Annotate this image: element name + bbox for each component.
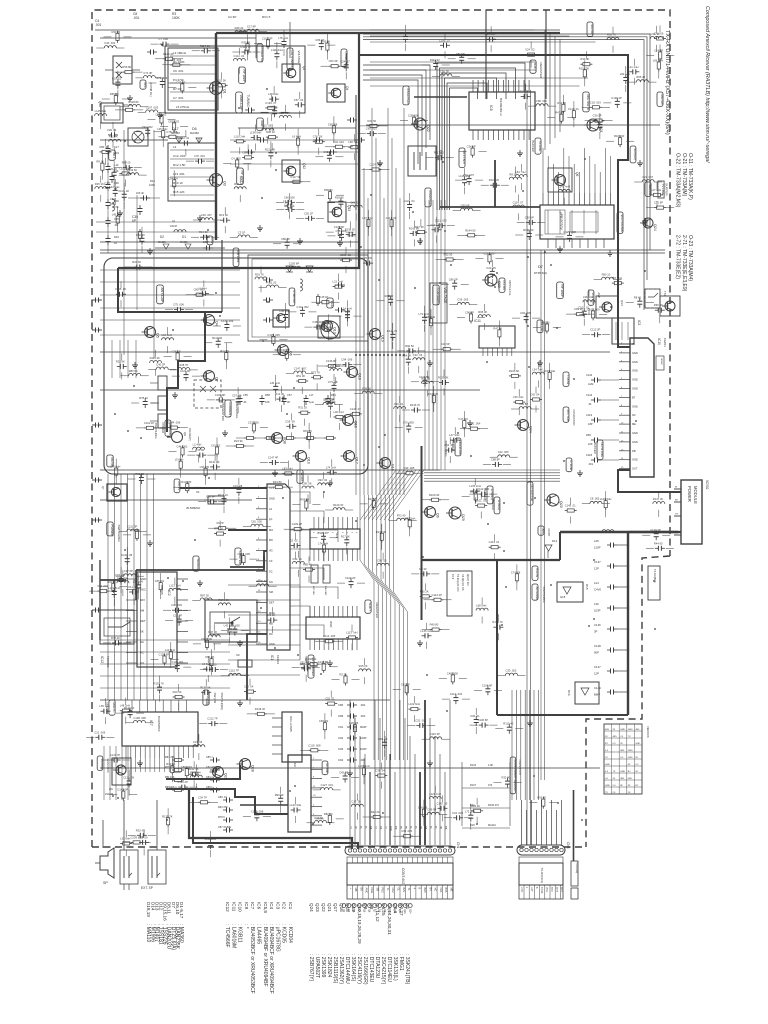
transistor Q19 (370, 329, 381, 340)
capacitor C94 with leads (342, 364, 346, 366)
capacitor C117 with leads (432, 229, 436, 231)
svg-text:R49 20: R49 20 (235, 26, 244, 30)
ground (609, 250, 611, 253)
rf amp label 3 (557, 282, 564, 299)
svg-text:L33 6nH: L33 6nH (120, 836, 130, 840)
ground (639, 160, 641, 163)
capacitor R52 with leads (141, 235, 143, 239)
capacitor C83 with leads (320, 40, 322, 44)
resistor L149 with leads (605, 498, 607, 501)
svg-text:C17: C17 (114, 145, 119, 149)
resistor R17 with leads (373, 498, 375, 501)
inductor L121 with leads (169, 588, 181, 590)
ground (339, 240, 341, 243)
IC9 regulator block (288, 755, 311, 832)
capacitor C17 with leads (139, 841, 143, 843)
capacitor R13 with leads (220, 219, 224, 221)
svg-text:R16 10: R16 10 (173, 181, 183, 185)
svg-text:R56 80: R56 80 (122, 65, 131, 69)
svg-text:R100 60: R100 60 (318, 531, 329, 535)
svg-text:C91: C91 (338, 725, 344, 729)
label RF AMP 1 (239, 67, 246, 84)
resistor R65 with leads (115, 93, 117, 96)
svg-text:R44 60: R44 60 (654, 541, 663, 545)
svg-text:R11 8K: R11 8K (220, 349, 229, 353)
resistor C117 with leads (290, 181, 293, 183)
resistor C45 with leads (319, 301, 322, 303)
svg-text:C139 6P: C139 6P (334, 225, 345, 229)
capacitor column (347, 704, 351, 706)
label IF MIX SW (289, 288, 295, 306)
svg-text:L68 5nH: L68 5nH (476, 604, 486, 608)
svg-text:R136 50: R136 50 (523, 228, 534, 232)
capacitor R90 with leads (140, 474, 142, 478)
capacitor C80 with leads (526, 221, 530, 223)
svg-text:R78 9: R78 9 (218, 816, 225, 819)
svg-text:C108 .008: C108 .008 (133, 716, 146, 720)
filter ladder 2 rungs (170, 149, 214, 151)
diode switch box D15 (557, 582, 583, 602)
connector CN3 socket (517, 845, 565, 855)
capacitor C57 with leads (237, 395, 239, 399)
transistor Q21 (587, 119, 599, 131)
wire (100, 37, 256, 39)
resistor C101 with leads (475, 505, 478, 507)
label Rd6 (233, 248, 239, 267)
svg-text:C109 2P: C109 2P (292, 522, 303, 526)
label D11 STANBY (287, 48, 293, 69)
svg-text:C11 .06: C11 .06 (128, 585, 138, 589)
connector CN1 callouts (342, 904, 346, 908)
svg-text:R122 20: R122 20 (489, 178, 500, 182)
wire trunk bottom (496, 560, 498, 715)
inductor C114 with leads (233, 58, 245, 60)
inductor C3 with leads (238, 235, 250, 237)
svg-text:R60 90: R60 90 (541, 321, 550, 325)
svg-text:GND: GND (269, 497, 275, 501)
pin drop lines PLL (542, 148, 544, 193)
svg-text:C78 .008: C78 .008 (166, 130, 177, 134)
capacitor C109 with leads (350, 578, 352, 582)
capacitor C117 with leads (123, 191, 125, 195)
inductor C37 with leads (193, 745, 205, 747)
capacitor C52 with leads (416, 724, 420, 726)
connector CN1 pin labels (347, 885, 453, 899)
svg-text:R47 3K: R47 3K (208, 630, 217, 634)
resistor C117 with leads (391, 217, 393, 220)
inductor C33 with leads (506, 673, 518, 675)
resistor L58 with leads (348, 146, 351, 148)
svg-text:EXT. SP: EXT. SP (141, 886, 153, 890)
transistor Q4 (204, 315, 215, 326)
svg-text:R106 6K: R106 6K (509, 369, 520, 373)
svg-text:SRFAT: SRFAT (660, 358, 663, 366)
svg-text:SWITCHING: SWITCHING (154, 423, 158, 439)
svg-text:C124: C124 (586, 373, 593, 377)
resistor C14 with leads (659, 49, 661, 52)
resistor C52 with leads (325, 703, 328, 705)
resistor L57 with leads (612, 282, 615, 284)
label MULTIPLEXER (109, 700, 115, 715)
svg-text:R107: R107 (470, 784, 477, 787)
svg-text:DTZ5.6(A): DTZ5.6(A) (534, 271, 547, 275)
svg-text:GND: GND (635, 743, 640, 745)
svg-text:Q20: Q20 (559, 501, 563, 508)
svg-text:R59 60: R59 60 (324, 188, 333, 192)
capacitor C20 with leads (491, 268, 493, 272)
capacitor C19 with leads (117, 79, 119, 83)
svg-text:CONT: CONT (547, 529, 551, 537)
label INVERTER 2 (425, 188, 431, 207)
connector CN3 pin labels (519, 885, 563, 899)
svg-text:L111 3nH: L111 3nH (117, 576, 128, 580)
inductor C127 with leads (321, 788, 333, 790)
svg-text:BY: BY (428, 888, 432, 892)
capacitor cluster A (245, 109, 249, 111)
ground (159, 112, 161, 115)
svg-text:Q28: Q28 (497, 281, 501, 288)
resistor L98 with leads (430, 316, 432, 319)
wire trunk IC1 MO (228, 529, 267, 531)
svg-text:D1: D1 (182, 235, 186, 239)
svg-text:DET: DET (140, 619, 146, 623)
svg-text:C129 3P: C129 3P (650, 528, 661, 532)
svg-text:R130 9K: R130 9K (200, 685, 211, 689)
svg-text:R19 7K: R19 7K (255, 272, 264, 276)
transistor G10 (380, 458, 391, 469)
inductor R95 with leads (421, 381, 433, 383)
svg-text:C139 .005: C139 .005 (131, 835, 144, 839)
wire trunk stair 1 (166, 765, 240, 779)
resistor R129 with leads (163, 58, 166, 60)
resistor L10 with leads (170, 649, 172, 652)
svg-text:Q4: Q4 (215, 321, 219, 326)
diode switch box D16 (575, 682, 599, 704)
svg-text:UHC: UHC (520, 887, 523, 892)
label RF AMP 2 (237, 168, 244, 185)
transistor Q16 (343, 415, 354, 426)
svg-text:R8 60: R8 60 (634, 296, 642, 300)
resistor C109 with leads (292, 528, 295, 530)
table version matrix (604, 724, 642, 794)
resistor C128 with leads (164, 654, 166, 657)
inductor R49 with leads (235, 31, 247, 33)
svg-text:8C: 8C (365, 826, 367, 829)
capacitor C1 (147, 51, 151, 53)
svg-text:C4V0: C4V0 (594, 588, 601, 592)
svg-text:C5 .05: C5 .05 (290, 539, 298, 543)
svg-text:R135 7K: R135 7K (162, 814, 173, 818)
capacitor C11 with leads (347, 311, 349, 315)
svg-text:: BU4094BF or XRU4094BF: : BU4094BF or XRU4094BF (262, 924, 268, 987)
svg-text:100P: 100P (360, 747, 367, 751)
center belt resistors (244, 437, 247, 439)
svg-text:RF AMP: RF AMP (240, 171, 244, 184)
svg-text:C112 .005: C112 .005 (323, 634, 336, 638)
wire trunk TX (421, 446, 423, 620)
svg-text:220P: 220P (203, 241, 209, 244)
inductor C107 with leads (146, 110, 158, 112)
resistor R44 with leads (273, 486, 276, 488)
svg-text:103P: 103P (594, 609, 601, 613)
svg-text:R47 5K: R47 5K (415, 225, 424, 229)
transistor Q6c (172, 432, 183, 443)
transistor Q8 (272, 433, 283, 444)
svg-text:C13 .04: C13 .04 (244, 685, 254, 689)
svg-text:C92: C92 (338, 736, 344, 740)
switch box S1 (100, 610, 134, 644)
svg-text:160P: 160P (360, 736, 367, 740)
svg-text:: μPC1678G: : μPC1678G (274, 924, 280, 952)
svg-text:C95 .06: C95 .06 (377, 559, 387, 563)
capacitor C86 with leads (454, 280, 456, 284)
svg-text:C137: C137 (594, 560, 601, 564)
capacitor C87 with leads (301, 668, 305, 670)
svg-text:C147 6P: C147 6P (117, 788, 128, 792)
svg-text:220: 220 (331, 400, 336, 404)
capacitor C38 with leads (313, 326, 317, 328)
svg-text:C71 3P: C71 3P (143, 71, 152, 75)
label MIC SW (657, 92, 663, 106)
capacitor C20 with leads (285, 209, 289, 211)
resistor C34 with leads (472, 146, 474, 149)
svg-text:.001: .001 (133, 16, 140, 20)
IC10 power amp (630, 338, 654, 477)
svg-text:Q7: Q7 (215, 377, 219, 382)
svg-text:R137 2K: R137 2K (653, 497, 664, 501)
resistor C93 with leads (181, 81, 183, 84)
label POWER SET (308, 655, 314, 678)
svg-text:R83 4K: R83 4K (471, 804, 480, 808)
svg-text:R148 40: R148 40 (255, 707, 266, 711)
inductor C8 with leads (590, 501, 602, 503)
inductor R129 with leads (333, 508, 345, 510)
svg-text:DA: DA (370, 826, 373, 830)
svg-text:: KCD04: : KCD04 (287, 924, 293, 943)
transistor Q9 (425, 507, 436, 518)
label POWER SW B (341, 49, 347, 67)
resistor R14 with leads (562, 102, 564, 105)
svg-text:C147 .007: C147 .007 (294, 366, 307, 370)
svg-text:SW (9R: SW (9R (213, 693, 217, 704)
svg-text:C83 1P: C83 1P (315, 38, 324, 42)
svg-text:Q10: Q10 (388, 909, 391, 914)
resistor L30 with leads (333, 416, 336, 418)
svg-text:VOLTAGE: VOLTAGE (297, 51, 301, 64)
resistor R59 with leads (329, 189, 331, 192)
resistor R144 with leads (465, 234, 468, 236)
resistor C85 with leads (475, 491, 477, 494)
inductor R15 with leads (359, 669, 371, 671)
svg-text:C19 .02: C19 .02 (112, 77, 122, 81)
bus bundle APC (424, 469, 560, 471)
svg-text:C6 .001: C6 .001 (173, 69, 184, 73)
ground (149, 248, 151, 251)
svg-text:R122 8K: R122 8K (265, 147, 276, 151)
transistor Q2 box (282, 64, 300, 82)
resistor C93 with leads (406, 683, 408, 686)
svg-text:L90 1nH: L90 1nH (620, 72, 630, 76)
svg-text:R21 50: R21 50 (368, 119, 377, 123)
svg-text:MA360: MA360 (180, 241, 188, 244)
IC2 IF system (137, 572, 177, 667)
ground (539, 360, 541, 363)
inductor C115 with leads (229, 673, 241, 675)
svg-text:R115 40: R115 40 (503, 722, 513, 726)
svg-text:.001: .001 (95, 23, 102, 27)
ground (519, 150, 521, 153)
capacitor R26 with leads (113, 169, 115, 173)
svg-text:Q22: Q22 (321, 903, 326, 912)
svg-text:R61 6K: R61 6K (379, 737, 388, 741)
capacitor C76 with leads (195, 160, 199, 162)
IC1 audio processor (267, 484, 290, 650)
antenna matching chain (607, 544, 611, 546)
svg-text:R90 10: R90 10 (602, 273, 611, 277)
svg-text:T. ROW: T. ROW (566, 375, 570, 385)
capacitor R96 with leads (655, 309, 659, 311)
resistor C134 with leads (328, 321, 330, 324)
svg-text:C112 2P: C112 2P (590, 328, 600, 332)
svg-text:C109 2P: C109 2P (345, 576, 356, 580)
svg-text:R13: R13 (150, 179, 155, 183)
capacitor C124 with leads (409, 201, 411, 205)
svg-text:B13 IN: B13 IN (535, 569, 539, 578)
transistor Q20 box (660, 296, 680, 316)
svg-text:9A3 9W: 9A3 9W (590, 25, 594, 35)
svg-text:GND: GND (632, 458, 638, 462)
svg-text:: KGB11: : KGB11 (237, 924, 243, 943)
svg-text:C113 .01: C113 .01 (489, 540, 500, 544)
svg-text:C88 1: C88 1 (206, 786, 213, 789)
svg-text:R30 30: R30 30 (112, 30, 121, 34)
svg-text:C84 m: C84 m (206, 776, 213, 779)
svg-text:SWITCHING: SWITCHING (117, 525, 121, 543)
svg-text:IC20: IC20 (329, 621, 333, 628)
svg-text:100K: 100K (172, 16, 181, 20)
svg-text:C30 5P: C30 5P (593, 114, 602, 118)
wire IC1 right rail (299, 462, 301, 660)
svg-text:R90 4.7: R90 4.7 (165, 786, 174, 789)
svg-text:C144 .006: C144 .006 (168, 421, 181, 425)
svg-text:PD1: PD1 (545, 887, 548, 892)
svg-text:9(9,W) 9FF: 9(9,W) 9FF (466, 574, 469, 587)
wire (221, 240, 223, 312)
svg-text:APC TEM: APC TEM (566, 410, 570, 421)
capacitor C102 with leads (256, 811, 258, 815)
power module (681, 480, 702, 544)
wire pair (526, 90, 528, 845)
label VOLTAGE REVERSION (97, 756, 103, 770)
svg-text:: LA4465: : LA4465 (256, 924, 262, 944)
resistor R95 with leads (326, 41, 328, 44)
svg-text:D11 STANBY: D11 STANBY (290, 51, 294, 68)
selector box dashed (194, 380, 221, 408)
svg-text:PREVENTION: PREVENTION (221, 403, 225, 421)
resistor L27 with leads (651, 194, 654, 196)
svg-text:C81 .005: C81 .005 (251, 520, 262, 524)
svg-text:C30 .01: C30 .01 (470, 714, 480, 718)
label BUFF (257, 118, 264, 130)
svg-text:100K: 100K (149, 183, 155, 187)
svg-text:C57 .06: C57 .06 (232, 393, 242, 397)
svg-text:C38 .003: C38 .003 (171, 603, 182, 607)
svg-text:R25 6K: R25 6K (400, 31, 409, 35)
svg-text:L10: L10 (114, 163, 119, 167)
resistor C119 with leads (308, 749, 311, 751)
capacitor C145 with leads (440, 44, 444, 46)
resistor C135 with leads (272, 334, 274, 337)
svg-text:R44 80: R44 80 (273, 480, 282, 484)
capacitor R117 with leads (201, 50, 205, 52)
svg-text:C47 .03: C47 .03 (458, 417, 468, 421)
svg-text:SHIFT: SHIFT (368, 603, 372, 612)
capacitor C16 with leads (238, 486, 240, 490)
capacitor L121 with leads (113, 588, 115, 592)
resistor C76 with leads (313, 141, 316, 143)
svg-text:SB: SB (375, 888, 379, 892)
svg-text:POWER SW: POWER SW (260, 47, 264, 63)
chip resistor pair (311, 565, 318, 583)
capacitor L43 with leads (229, 626, 231, 630)
svg-text:R90 50: R90 50 (405, 344, 414, 348)
svg-text:W.318: W.318 (300, 473, 304, 482)
capacitor C7 with leads (160, 43, 164, 45)
capacitor R78 with leads (112, 642, 116, 644)
svg-text:R65 40: R65 40 (537, 796, 546, 800)
svg-text:L98 9nH: L98 9nH (425, 315, 435, 319)
capacitor C136 with leads (616, 98, 618, 102)
transistor Q5 (145, 327, 156, 338)
svg-text:DET: DET (269, 601, 275, 605)
IC11 afc (479, 326, 515, 348)
svg-text:C105 5P: C105 5P (262, 36, 273, 40)
svg-text:R49 50: R49 50 (308, 657, 317, 661)
svg-text:56P: 56P (594, 651, 599, 655)
resistor L9 with leads (297, 136, 299, 139)
svg-text:IC2: IC2 (282, 902, 287, 910)
capacitor R25 with leads (405, 33, 407, 37)
resistor L150 with leads (549, 370, 551, 373)
svg-text:C57 .04: C57 .04 (294, 98, 304, 102)
svg-text:C29 .01: C29 .01 (107, 128, 117, 132)
resistor L110 with leads (234, 140, 237, 142)
resistor C10 with leads (441, 348, 444, 350)
capacitor C92 with leads (301, 666, 305, 668)
svg-text:R2 20: R2 20 (340, 673, 348, 677)
transistor Q13 box (318, 316, 340, 338)
svg-text:SIGNAL: SIGNAL (196, 559, 200, 570)
capacitor L41 with leads (629, 71, 633, 73)
svg-text:L4: L4 (173, 145, 177, 149)
svg-text:MA360: MA360 (158, 241, 166, 244)
resistor C102 with leads (592, 308, 594, 311)
resistor L132 with leads (409, 517, 411, 520)
label HIGH LOW (455, 438, 461, 456)
svg-text:MIC 9W: MIC 9W (660, 95, 664, 105)
svg-text:IC5,8: IC5,8 (263, 902, 268, 913)
inductor R126 with leads (128, 104, 140, 106)
svg-text:C93: C93 (338, 747, 344, 751)
svg-text:CURRENT: CURRENT (228, 403, 232, 418)
wire trunk IC1 IF2 (230, 551, 267, 567)
svg-text:C121 .004: C121 .004 (468, 422, 481, 426)
svg-text:R32 40: R32 40 (136, 828, 145, 832)
svg-text:R144 7K: R144 7K (387, 329, 398, 333)
svg-text:C147 4P: C147 4P (268, 456, 279, 460)
resistor C99 with leads (404, 472, 407, 474)
resistor R47 with leads (560, 112, 562, 115)
